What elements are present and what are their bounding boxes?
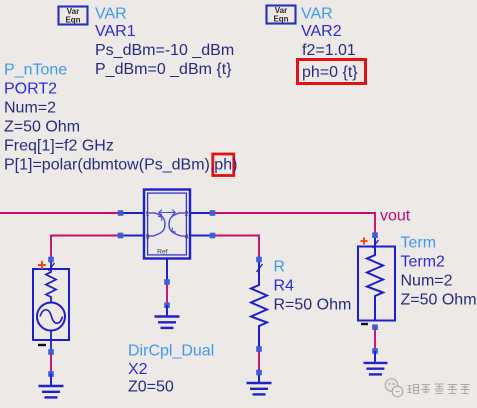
red highlight box around ph argument	[213, 154, 234, 176]
wire: coupler pin4 to R4	[215, 236, 259, 258]
svg-text:Num=2: Num=2	[401, 272, 453, 289]
svg-text:vout: vout	[380, 207, 411, 224]
ground under PORT2	[39, 374, 64, 397]
wire: R4 bottom to ground	[256, 351, 262, 375]
wire: coupler pin3 to PORT2 top	[51, 236, 118, 259]
VAR1 value labels	[95, 5, 234, 78]
X2 pin numbers	[146, 211, 189, 241]
ground under R4	[247, 375, 272, 394]
VAR2 value labels	[301, 5, 358, 81]
svg-text:X2: X2	[128, 361, 148, 378]
svg-text:1: 1	[146, 211, 150, 218]
wire: coupler pin2 to vout / Term2	[215, 213, 375, 233]
svg-text:PORT2: PORT2	[4, 81, 57, 98]
svg-text:VAR2: VAR2	[301, 23, 342, 40]
svg-text:Z=50 Ohm: Z=50 Ohm	[4, 119, 80, 136]
directional coupler X2 symbol	[144, 190, 190, 259]
svg-text:2: 2	[185, 211, 189, 218]
X2 Ref pin label	[157, 249, 168, 256]
term Term2 symbol	[358, 232, 395, 324]
X2 instance labels	[128, 343, 214, 396]
svg-text:3: 3	[146, 234, 150, 241]
R4 labels	[274, 259, 352, 314]
svg-text:Z=50 Ohm: Z=50 Ohm	[401, 291, 477, 308]
svg-text:Freq[1]=f2 GHz: Freq[1]=f2 GHz	[4, 138, 114, 155]
ground under X2 Ref	[155, 305, 180, 328]
svg-text:Term: Term	[401, 234, 437, 251]
source PORT2 symbol	[33, 257, 69, 352]
junction squares at coupler pins	[118, 210, 216, 238]
svg-text:4: 4	[185, 234, 189, 241]
svg-text:Z0=50: Z0=50	[128, 378, 174, 395]
svg-text:Num=2: Num=2	[4, 100, 56, 117]
svg-text:Term2: Term2	[401, 253, 446, 270]
VarEqn icon for VAR2	[267, 6, 296, 24]
svg-text:R: R	[274, 259, 286, 276]
watermark logo and text	[385, 379, 469, 397]
wire: Term2 bottom to ground	[372, 324, 378, 353]
svg-text:Ps_dBm=-10 _dBm: Ps_dBm=-10 _dBm	[95, 42, 234, 59]
svg-text:DirCpl_Dual: DirCpl_Dual	[128, 343, 214, 360]
Term2 labels	[401, 234, 477, 308]
svg-text:VAR1: VAR1	[95, 23, 136, 40]
svg-text:R4: R4	[274, 278, 295, 295]
VarEqn icon for VAR1	[59, 7, 88, 25]
svg-text:f2=1.01: f2=1.01	[302, 42, 356, 59]
wire: coupler pin1 to left edge	[0, 212, 118, 214]
svg-text:Eqn: Eqn	[273, 15, 288, 24]
svg-text:VAR: VAR	[95, 5, 127, 22]
wire: PORT2 bottom to ground	[48, 349, 54, 377]
P_nTone PORT2 labels	[4, 62, 237, 174]
svg-text:R=50 Ohm: R=50 Ohm	[274, 297, 352, 314]
ground under Term2	[364, 351, 388, 374]
coupler pin stubs	[120, 213, 213, 282]
red highlight box around ph=0 {t}	[298, 60, 366, 84]
svg-text:VAR: VAR	[301, 5, 333, 22]
svg-text:P_dBm=0 _dBm {t}: P_dBm=0 _dBm {t}	[95, 61, 232, 78]
svg-text:Eqn: Eqn	[65, 16, 80, 25]
svg-text:ph=0 {t}: ph=0 {t}	[302, 64, 358, 81]
wire: Ref to ground	[164, 279, 170, 308]
node vout	[380, 207, 411, 224]
resistor R4	[251, 257, 267, 352]
svg-text:Ref: Ref	[157, 249, 168, 256]
svg-text:P[1]=polar(dbmtow(Ps_dBm),ph): P[1]=polar(dbmtow(Ps_dBm),ph)	[4, 157, 237, 174]
svg-text:P_nTone: P_nTone	[4, 62, 67, 79]
